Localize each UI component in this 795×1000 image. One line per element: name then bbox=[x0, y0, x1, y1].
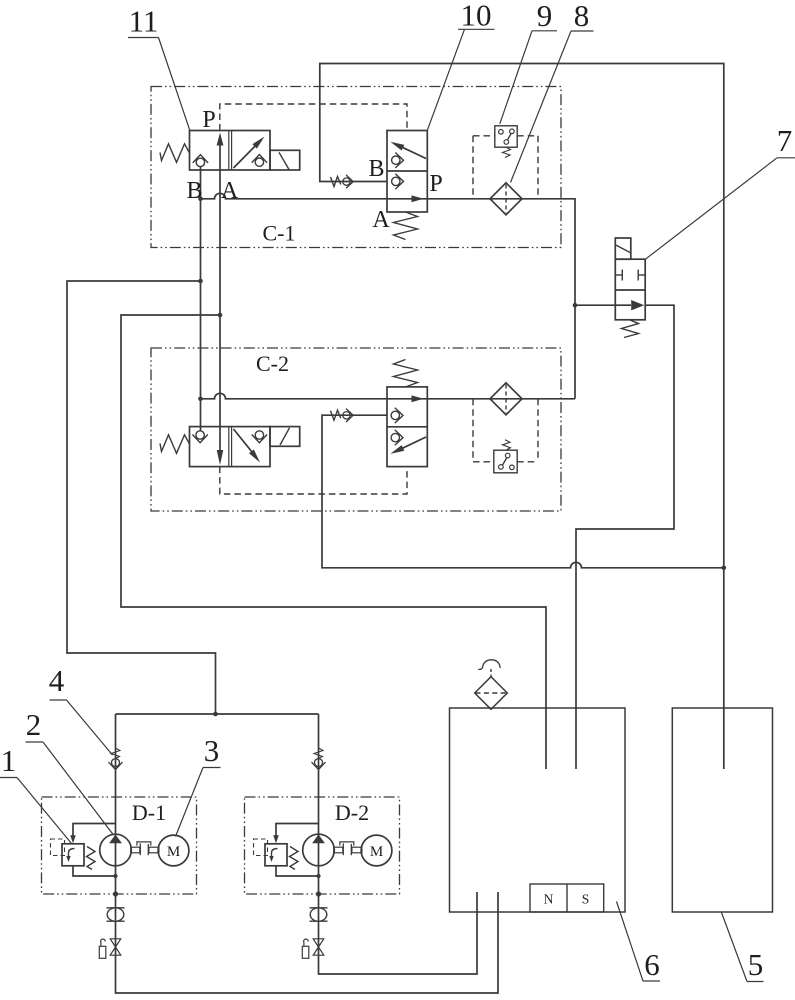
valve 7 flow arrow (bottom square) bbox=[615, 304, 631, 306]
wire: suction line from valve 10 port B left, up, across top, down into tank 5 bbox=[320, 64, 724, 770]
pressure switch 9 spring bbox=[503, 148, 511, 158]
C-2 left valve return spring bbox=[160, 435, 190, 454]
C-2 pressure switch circles bbox=[505, 453, 510, 458]
drain shut-off valve (bowtie) bbox=[110, 939, 121, 947]
pump 2 circle bbox=[100, 834, 132, 866]
wire: P supply line C-1 (from node B1 to valve 10, hop over A line) bbox=[201, 193, 388, 199]
junction node B2 (B line to C-2 line) bbox=[198, 397, 203, 402]
svg-text:A: A bbox=[372, 207, 390, 233]
relief valve 1 internal arrow bbox=[69, 849, 75, 859]
pressure switch 9 contact line bbox=[507, 133, 511, 140]
valve 7 blocked ports (top square) bbox=[615, 274, 622, 276]
svg-text:9: 9 bbox=[537, 0, 553, 33]
coupling claw right bbox=[147, 844, 149, 855]
C-2 left valve solenoid diagonal bbox=[280, 428, 290, 445]
pump 2 line down bbox=[115, 714, 117, 894]
valve 10 position divider bbox=[387, 170, 427, 172]
svg-text:5: 5 bbox=[748, 947, 764, 982]
D-2 coupling bridge bbox=[340, 842, 354, 846]
enclosure C-1 (dash-dot box) bbox=[151, 87, 561, 248]
coupling shaft (motor side) bbox=[149, 847, 159, 853]
D-2 pump line bbox=[318, 714, 320, 894]
wire: port B line from valve 11 down to C-2 left valve bbox=[200, 167, 202, 432]
svg-text:M: M bbox=[167, 844, 180, 860]
junction node tank-5 pipe / C-2 suction bbox=[722, 566, 727, 571]
D-2 relief valve top line bbox=[276, 824, 319, 837]
D-2 coupling claw left bbox=[342, 843, 344, 855]
svg-text:6: 6 bbox=[644, 947, 660, 982]
D-2 junction dot relief/pump bbox=[316, 874, 320, 878]
valve 11 flow diagonal with arrow (square 2) bbox=[234, 140, 262, 168]
pilot dashed line C-2 left valve to C-2 right valve bbox=[220, 467, 407, 494]
C-2 right valve position divider bbox=[387, 426, 427, 428]
svg-text:M: M bbox=[370, 844, 383, 860]
enclosure D-2 (dash-dot box) bbox=[245, 797, 400, 894]
valve 7 solenoid box bbox=[615, 238, 631, 259]
junction dot at box bottom bbox=[113, 891, 118, 896]
svg-text:7: 7 bbox=[777, 123, 793, 158]
C-2 filter diamond bbox=[490, 383, 522, 415]
C-2 left valve position divider (double line) bbox=[228, 427, 230, 467]
coupling bridge bbox=[137, 842, 151, 846]
tank 6 magnet box bbox=[530, 884, 604, 912]
wire: C-2 internal line from node B2 to valve (hop over A line) bbox=[201, 393, 388, 398]
wire: suction line C-2 valve port B left, down, across to tank 5 pipe (hop over drain) bbox=[322, 415, 724, 568]
svg-text:C-1: C-1 bbox=[263, 221, 296, 246]
C-2 right valve ball check (bottom square) bbox=[391, 433, 399, 441]
C-2 left valve A arrow (pointing down) bbox=[217, 450, 224, 465]
wire: pump manifold line bbox=[116, 713, 319, 715]
D-2 coupling shaft pump side bbox=[334, 847, 343, 853]
svg-text:4: 4 bbox=[49, 663, 65, 698]
valve 7 body bbox=[615, 259, 645, 320]
valve 10 body bbox=[387, 131, 427, 213]
svg-text:C-2: C-2 bbox=[256, 351, 289, 376]
D-2 relief bottom return line bbox=[276, 866, 319, 876]
D-2 relief valve box bbox=[265, 844, 287, 866]
pump 2 triangle (flow up) bbox=[109, 835, 122, 844]
junction node B1 (B line to P supply C-1) bbox=[198, 197, 203, 202]
valve 11 solenoid diagonal bbox=[279, 152, 289, 169]
valve 7 return spring bbox=[622, 320, 639, 338]
enclosure D-1 (dash-dot box) bbox=[42, 797, 197, 894]
svg-text:11: 11 bbox=[129, 4, 159, 39]
valve 7 position divider bbox=[615, 289, 645, 291]
valve 7 solenoid diagonal bbox=[616, 245, 630, 253]
junction node on A line to drain bbox=[218, 313, 223, 318]
valve 10 ball check (top square) bbox=[392, 156, 400, 164]
D-2 check valve spring bbox=[314, 748, 323, 759]
C-2 left valve solenoid box bbox=[270, 427, 300, 447]
C-2 right valve return spring bbox=[394, 360, 418, 388]
C-2 pressure switch contact line bbox=[502, 458, 506, 465]
C-2 left valve ball check (square 2) bbox=[255, 431, 263, 439]
filter 8 element dashed line bbox=[505, 185, 507, 214]
svg-text:3: 3 bbox=[204, 733, 220, 768]
svg-text:10: 10 bbox=[461, 0, 492, 33]
C-2 right valve body bbox=[387, 387, 427, 467]
wire: D-1 drain down and right into tank 6 suction pipe bbox=[116, 892, 499, 993]
valve 11 P arrow (square 1, pointing up) bbox=[219, 143, 221, 170]
D-2 check valve ball check bbox=[315, 759, 323, 767]
relief valve 1 spring bbox=[87, 847, 96, 870]
svg-text:2: 2 bbox=[26, 707, 42, 742]
C-2 left valve body bbox=[190, 427, 271, 467]
svg-text:B: B bbox=[368, 156, 384, 182]
valve 10 P arrow (bottom square, pointing right) bbox=[387, 198, 427, 200]
relief valve 1 box bbox=[62, 844, 84, 866]
tank 6 breather dashed line bbox=[476, 692, 507, 694]
C-2 left valve flow diagonal with arrow (square 2) bbox=[234, 429, 257, 457]
wire: supply from node B1 junction y281 left and down to pump manifold bbox=[67, 281, 216, 714]
D-2 motor circle bbox=[361, 835, 392, 866]
svg-text:S: S bbox=[582, 892, 590, 907]
D-2 relief pilot dashed box bbox=[254, 839, 268, 856]
wire: drain from node A junction y315 left, down, right into tank 6 bbox=[121, 315, 546, 769]
svg-text:1: 1 bbox=[1, 743, 17, 778]
svg-text:A: A bbox=[221, 178, 239, 204]
C-2 pressure switch dashed sensing lines bbox=[473, 461, 494, 463]
wire: valve 7 inlet line from vertical P link bbox=[575, 304, 615, 306]
D-2 sampling bottle icon bbox=[302, 946, 309, 958]
relief valve 1 top line with arrow bbox=[73, 824, 116, 837]
D-2 ball valve bbox=[310, 907, 328, 909]
wire: D-2 drain down and right into tank 6 suction pipe bbox=[319, 892, 478, 974]
wire: P line C-2 from right corner to valve (through filter) bbox=[427, 398, 575, 400]
D-2 coupling claw right bbox=[350, 844, 352, 855]
wire: port A line from valve 11 down to C-2 left valve bbox=[219, 170, 221, 454]
tank 6 magnet divider bbox=[566, 884, 568, 912]
D-2 relief valve internal arrow bbox=[272, 849, 278, 859]
valve 10 ball check (bottom square) bbox=[392, 177, 400, 185]
pressure switch 9 dashed sensing lines bbox=[473, 135, 495, 137]
svg-text:N: N bbox=[544, 892, 554, 907]
svg-text:P: P bbox=[429, 171, 442, 197]
D-2 relief valve spring bbox=[290, 847, 299, 870]
coupling claw left bbox=[139, 843, 141, 855]
C-2 right valve flow diagonal with arrow (bottom square) bbox=[396, 437, 426, 451]
junction node valve 7 inlet on P link bbox=[573, 303, 578, 308]
sampling bottle icon bbox=[99, 946, 106, 958]
valve 11 position divider (double line) bbox=[228, 131, 230, 171]
svg-text:D-2: D-2 bbox=[335, 800, 369, 825]
wire: P line C-1 valve 10 outlet to right corner, down to C-2 level bbox=[427, 199, 575, 399]
C-2 pressure switch box bbox=[494, 450, 517, 473]
D-2 pump circle bbox=[303, 834, 335, 866]
junction dot relief/pump bbox=[113, 874, 117, 878]
coupling shaft (pump side) bbox=[131, 847, 140, 853]
valve 11 body bbox=[190, 131, 271, 171]
D-2 coupling shaft motor side bbox=[352, 847, 362, 853]
D-2 pump triangle bbox=[312, 835, 325, 844]
check-orifice symbol on C-2 valve suction line bbox=[331, 410, 341, 420]
C-2 right valve ball check (top square) bbox=[391, 411, 399, 419]
tank 6 breather cap hook bbox=[478, 660, 500, 670]
D-2 drain shut-off valve bbox=[313, 939, 324, 947]
valve 11 ball check (square 1) bbox=[196, 158, 204, 166]
pressure switch 9 circles bbox=[499, 130, 504, 135]
valve 11 ball check (square 2) bbox=[255, 158, 263, 166]
relief valve 1 bottom return line bbox=[73, 866, 116, 876]
valve 10 return spring bbox=[394, 212, 418, 240]
check valve 4 ball check bbox=[112, 759, 120, 767]
C-2 right valve P arrow (top square, pointing right) bbox=[387, 398, 427, 400]
relief valve 1 pilot dashed box bbox=[51, 839, 65, 856]
ball valve bbox=[107, 907, 125, 909]
enclosure C-2 (dash-dot box) bbox=[151, 348, 561, 511]
check-orifice symbol on valve 10 port B suction line bbox=[331, 177, 341, 187]
valve 10 flow diagonal with arrow (top square) bbox=[396, 144, 426, 158]
wire: valve 7 outlet line right, down, left, down into tank 6 bbox=[576, 305, 674, 769]
check valve 4 spring bbox=[111, 748, 120, 759]
svg-text:8: 8 bbox=[574, 0, 590, 33]
tank 6 breather filter diamond bbox=[475, 677, 508, 710]
svg-text:D-1: D-1 bbox=[132, 800, 166, 825]
D-2 junction dot at box bottom bbox=[316, 891, 321, 896]
C-2 left valve ball check (square 1) bbox=[196, 431, 204, 439]
filter 8 diamond bbox=[490, 183, 522, 215]
tank 5 body bbox=[672, 708, 772, 912]
tank 6 body bbox=[450, 708, 626, 912]
motor 3 circle bbox=[158, 835, 189, 866]
C-2 pressure switch spring bbox=[503, 440, 511, 450]
valve 11 solenoid box bbox=[270, 150, 300, 170]
pressure switch 9 box bbox=[495, 126, 517, 147]
junction node on pump manifold bbox=[213, 712, 218, 717]
valve 11 return spring bbox=[160, 144, 190, 163]
C-2 filter element dashed line bbox=[505, 385, 507, 414]
junction node on B line to pump supply bbox=[198, 279, 203, 284]
pilot dashed line valve 11 to valve 10 bbox=[220, 104, 407, 131]
svg-text:P: P bbox=[202, 107, 215, 133]
